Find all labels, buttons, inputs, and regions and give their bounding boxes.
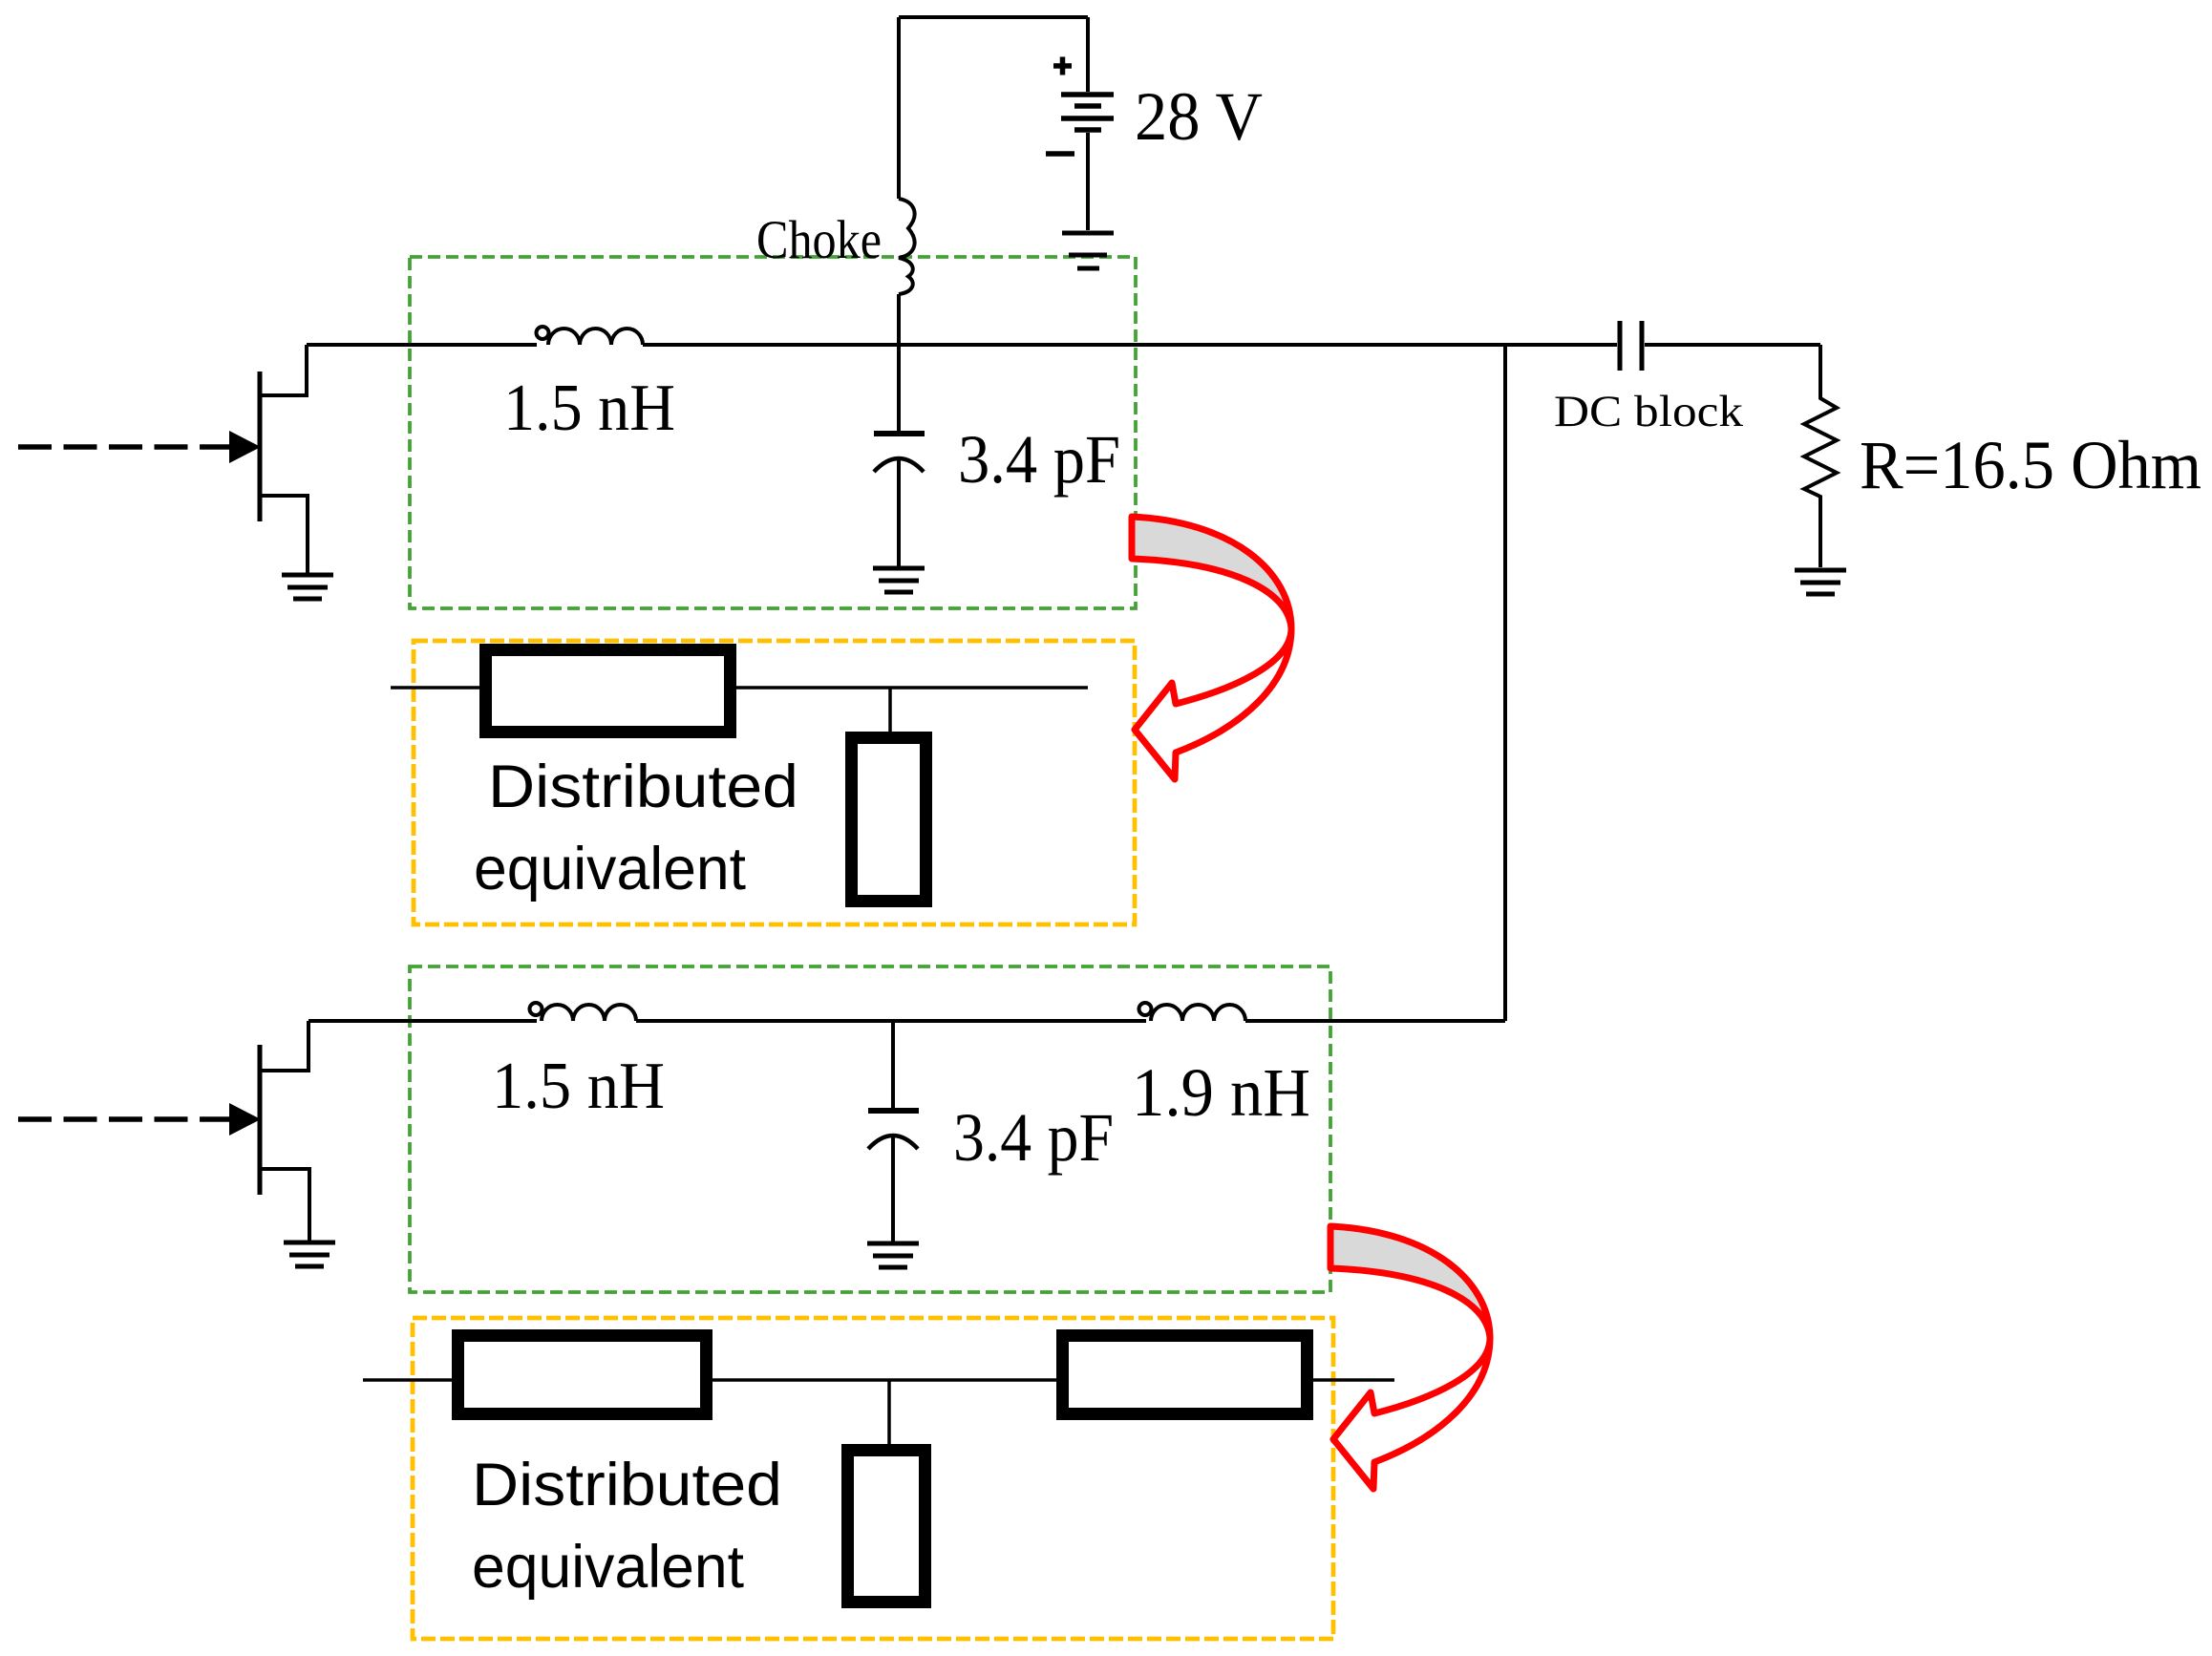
svg-text:equivalent: equivalent bbox=[472, 1534, 744, 1601]
svg-text:equivalent: equivalent bbox=[474, 836, 746, 902]
svg-text:3.4 pF: 3.4 pF bbox=[958, 421, 1120, 498]
svg-text:3.4 pF: 3.4 pF bbox=[953, 1099, 1114, 1176]
svg-text:R=16.5 Ohm: R=16.5 Ohm bbox=[1860, 427, 2201, 503]
svg-text:Distributed: Distributed bbox=[472, 1452, 782, 1518]
svg-text:1.5 nH: 1.5 nH bbox=[503, 372, 675, 445]
svg-text:Distributed: Distributed bbox=[488, 754, 798, 820]
svg-text:28 V: 28 V bbox=[1135, 78, 1263, 155]
svg-text:Choke: Choke bbox=[756, 210, 882, 270]
svg-text:DC block: DC block bbox=[1554, 387, 1744, 436]
svg-text:1.9 nH: 1.9 nH bbox=[1132, 1054, 1310, 1131]
svg-text:1.5 nH: 1.5 nH bbox=[492, 1050, 665, 1123]
